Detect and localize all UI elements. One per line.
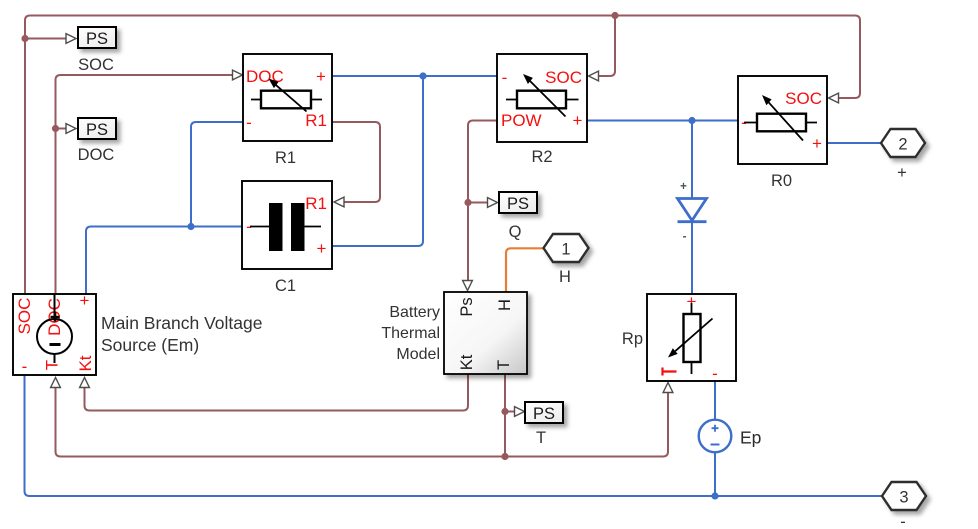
wire blue branch up to R1-: [191, 122, 242, 227]
svg-text:C1: C1: [275, 277, 296, 295]
svg-text:T: T: [495, 360, 513, 370]
wire Kt net (BTM Kt down, left, up to Em Kt): [85, 374, 469, 411]
arrow into Em T (up): [51, 378, 61, 388]
svg-text:Q: Q: [509, 223, 522, 241]
svg-text:R1: R1: [275, 149, 296, 167]
wire blue Rp- down to Ep: [714, 381, 716, 420]
wire R1 value net (R1 out to C1): [332, 122, 380, 202]
svg-text:-: -: [683, 231, 687, 243]
svg-text:+: +: [80, 291, 90, 310]
arrow into PS(DOC): [66, 124, 76, 134]
diode D (blue, pointing down): [678, 199, 707, 222]
resistor R0 (variable, SOC controlled): [738, 76, 827, 164]
node junction T horizontal: [501, 453, 508, 460]
node junction SOC to R2: [611, 12, 618, 19]
svg-text:-: -: [246, 113, 252, 132]
svg-text:-: -: [712, 364, 718, 383]
svg-text:Thermal: Thermal: [381, 325, 440, 342]
svg-text:T: T: [43, 360, 62, 370]
svg-text:T: T: [536, 429, 546, 447]
svg-text:Source (Em): Source (Em): [101, 335, 199, 355]
arrow into R2 SOC: [589, 71, 599, 81]
arrow into R0 SOC: [829, 93, 839, 103]
PS-Simulink converter PS(DOC): [78, 118, 116, 139]
svg-text:Kt: Kt: [458, 354, 476, 370]
arrow into Rp T (up): [663, 383, 673, 393]
svg-text:R2: R2: [531, 148, 552, 166]
svg-text:+: +: [812, 134, 822, 153]
wire POW net (R2 POW to Battery Thermal Model Ps): [468, 121, 497, 281]
resistor Rp (variable, T controlled): [647, 292, 736, 383]
svg-text:Ep: Ep: [740, 428, 761, 448]
wire blue diode cathode to Rp+: [691, 222, 693, 294]
svg-text:-: -: [900, 513, 906, 529]
wire blue Ep to bottom rail: [714, 452, 716, 496]
svg-text:SOC: SOC: [78, 56, 114, 74]
svg-text:DOC: DOC: [78, 146, 115, 164]
wire T run right to Rp T: [505, 393, 668, 457]
svg-text:SOC: SOC: [785, 89, 822, 108]
svg-text:Main Branch Voltage: Main Branch Voltage: [101, 313, 263, 333]
svg-text:3: 3: [899, 489, 908, 507]
svg-text:PS: PS: [507, 195, 529, 213]
wire T run left to Em T: [56, 388, 506, 457]
svg-text:SOC: SOC: [15, 298, 34, 335]
wire blue R1+ to R2-: [332, 75, 497, 77]
svg-text:SOC: SOC: [545, 68, 582, 87]
svg-text:2: 2: [898, 136, 907, 154]
wire blue branch down to C1+: [332, 76, 423, 246]
svg-text:R1: R1: [305, 194, 327, 213]
svg-text:PS: PS: [86, 121, 108, 139]
svg-text:DOC: DOC: [246, 67, 284, 86]
svg-text:Battery: Battery: [389, 304, 440, 321]
svg-text:Rp: Rp: [622, 330, 643, 348]
arrow into BTM Ps (down): [463, 281, 473, 291]
svg-text:-: -: [22, 357, 28, 376]
node junction blue to diode: [688, 117, 695, 124]
wire blue Em+ to C1- and R1-: [86, 227, 242, 295]
svg-text:Model: Model: [396, 346, 440, 363]
node junction blue R1+/C1+: [419, 72, 426, 79]
svg-text:R0: R0: [771, 172, 792, 190]
svg-text:PS: PS: [86, 30, 108, 48]
wire DOC net (Em DOC up and right to R1): [56, 75, 233, 294]
wire SOC branch to PS(SOC): [25, 38, 66, 40]
svg-text:+: +: [680, 181, 687, 193]
arrow into R1 DOC: [233, 70, 243, 80]
wire POW branch to PS(Q): [468, 202, 487, 204]
PS-Simulink converter PS(Q): [499, 192, 537, 213]
arrow into PS(T): [515, 407, 525, 417]
capacitor C1: [242, 181, 332, 269]
wire blue bottom rail (Em- to port 3): [25, 375, 882, 496]
svg-text:+: +: [317, 239, 327, 258]
wire orange H (port 1 to BTM H): [506, 248, 544, 292]
port 2 (+ terminal): [881, 129, 925, 157]
svg-text:Kt: Kt: [76, 355, 95, 371]
svg-text:R1: R1: [305, 111, 327, 130]
wire blue R0+ to port 2: [827, 142, 881, 144]
node junction blue bottom rail / Ep: [711, 492, 718, 499]
svg-text:Ps: Ps: [458, 297, 476, 316]
wire blue R2+ to R0-: [587, 120, 738, 122]
node junction SOC to PS(SOC): [21, 35, 28, 42]
wire T net vertical (BTM T down): [504, 374, 506, 457]
resistor R2 (variable, SOC controlled): [497, 54, 587, 142]
wire SOC net vertical+top run (Em SOC up, across top, down to R0): [25, 16, 860, 295]
subsystem Battery Thermal Model: [444, 292, 527, 374]
svg-text:1: 1: [561, 241, 570, 259]
node junction T to PS(T): [501, 408, 508, 415]
arrow into PS(Q): [488, 198, 498, 208]
svg-text:POW: POW: [501, 111, 542, 130]
node junction POW to PS(Q): [464, 199, 471, 206]
wire T branch to PS(T): [505, 411, 514, 413]
wire DOC branch to PS(DOC): [56, 128, 66, 130]
voltage source block Main Branch Voltage Source (Em): [13, 291, 96, 376]
port 1 (H input): [544, 234, 589, 262]
voltage source Ep (circle symbol): [699, 420, 732, 453]
PS-Simulink converter PS(T): [525, 402, 563, 423]
port 3 (- terminal): [882, 482, 926, 510]
svg-text:+: +: [573, 111, 583, 130]
svg-text:H: H: [559, 268, 571, 286]
arrow into Em Kt (up): [80, 378, 90, 388]
svg-text:H: H: [496, 299, 514, 311]
resistor R1 (variable, DOC controlled): [243, 54, 332, 141]
svg-text:+: +: [316, 67, 326, 86]
wire blue down to diode anode: [691, 121, 693, 199]
node junction blue C1-/R1-: [187, 223, 194, 230]
svg-text:+: +: [897, 164, 907, 182]
node junction DOC to PS(DOC): [52, 125, 59, 132]
svg-text:PS: PS: [533, 405, 555, 423]
wire SOC branch to R2: [599, 16, 615, 77]
arrow into PS(SOC): [66, 34, 76, 44]
arrow into C1 R1 input: [334, 197, 344, 207]
svg-text:-: -: [502, 68, 508, 87]
PS-Simulink converter PS(SOC): [78, 27, 116, 48]
